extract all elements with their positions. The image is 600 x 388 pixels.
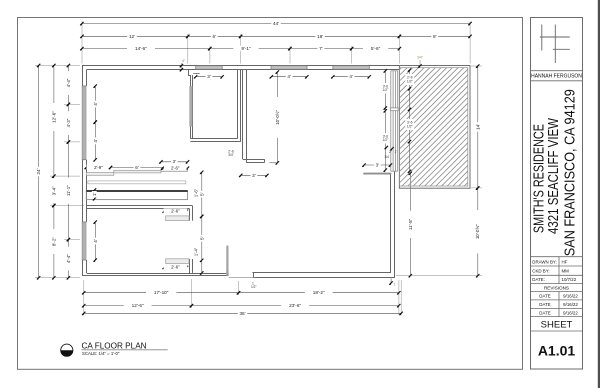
dim 4ft4 left upper	[66, 64, 71, 106]
dim 10ft right	[475, 186, 480, 277]
svg-text:10'-0⅝": 10'-0⅝"	[475, 224, 480, 239]
deck outer outline	[399, 66, 470, 189]
dim 4ft4 left lower	[66, 238, 71, 280]
dim 4ft window W4b	[92, 120, 97, 161]
svg-text:DATE:: DATE:	[532, 277, 545, 282]
svg-text:23'-6": 23'-6"	[289, 303, 301, 308]
svg-text:SAN FRANCISCO, CA 94129: SAN FRANCISCO, CA 94129	[562, 89, 579, 256]
sheet border frame	[18, 18, 523, 370]
dim 1ft island	[92, 188, 97, 200]
dim 5ft tier upper	[199, 171, 204, 219]
interior wall stub right	[364, 173, 390, 175]
svg-text:11'-8": 11'-8"	[408, 218, 413, 230]
svg-text:4'-3": 4'-3"	[66, 118, 71, 127]
lower room top wall	[87, 205, 193, 207]
door jamb step detail room1	[193, 73, 200, 75]
dim 14ft6	[80, 46, 211, 51]
title block row lines	[531, 71, 583, 331]
kitchen island thick front edge	[86, 190, 187, 192]
svg-text:SHEET: SHEET	[541, 319, 573, 330]
svg-text:HF: HF	[562, 259, 568, 264]
dim 2ft6 kitchen upper	[161, 165, 189, 170]
svg-text:3': 3'	[207, 74, 211, 79]
svg-text:5': 5'	[199, 236, 204, 240]
svg-text:1'-6": 1'-6"	[194, 188, 199, 197]
svg-text:17'-10": 17'-10"	[154, 290, 169, 295]
svg-text:4': 4'	[349, 74, 353, 79]
tier tick bottom	[200, 271, 203, 274]
svg-text:1/2": 1/2"	[383, 138, 390, 142]
svg-text:2'-6": 2'-6"	[171, 265, 180, 270]
right dimension extension lines	[396, 66, 482, 276]
deck tier small labels	[405, 74, 414, 130]
bottom wall left inner	[87, 273, 227, 275]
dim 1ft4 kitchen right	[194, 241, 199, 264]
svg-text:CKD BY:: CKD BY:	[532, 269, 549, 274]
svg-text:1/2": 1/2"	[407, 80, 414, 84]
dim 4ft window W5	[92, 220, 97, 261]
svg-text:44': 44'	[273, 21, 279, 26]
dim 3ft4 left	[51, 175, 56, 208]
lower room right wall lower	[189, 259, 191, 273]
entry door leaf	[226, 247, 228, 274]
svg-text:3': 3'	[376, 162, 380, 167]
dim 11ft8 right	[408, 172, 413, 278]
bottom wall right inner	[252, 272, 390, 274]
arrow line at wall for interior dim	[269, 162, 277, 164]
svg-text:4'-4": 4'-4"	[66, 78, 71, 87]
entry door hinge block	[226, 270, 228, 276]
dim 17ft10 bottom	[82, 290, 240, 295]
title block outline	[531, 18, 583, 370]
L-wall horizontal pair	[243, 159, 265, 161]
svg-text:14'-6": 14'-6"	[135, 46, 147, 51]
svg-text:1': 1'	[92, 192, 97, 195]
svg-text:CA FLOOR PLAN: CA FLOOR PLAN	[82, 341, 147, 350]
dim 2ft6 closet top	[163, 208, 189, 213]
tiny dim bottom right 1ft	[390, 279, 392, 284]
svg-text:4': 4'	[93, 239, 98, 243]
room1 right wall	[237, 70, 239, 139]
top wall inner line	[87, 69, 400, 71]
left wall inner lower	[86, 260, 88, 273]
svg-text:1'-4": 1'-4"	[194, 247, 199, 256]
svg-text:HANNAH FERGUSON: HANNAH FERGUSON	[531, 74, 582, 80]
svg-text:24': 24'	[36, 168, 41, 174]
revision date rows	[539, 294, 578, 316]
svg-text:10/7/22: 10/7/22	[562, 277, 577, 282]
dim 8 ft	[398, 33, 472, 38]
dim 24 ft left	[36, 64, 41, 280]
svg-text:DATE: DATE	[539, 294, 550, 299]
svg-text:11'-1": 11'-1"	[66, 185, 71, 196]
svg-text:DATE: DATE	[539, 310, 550, 315]
page right edge shadow	[598, 0, 600, 388]
kitchen island	[86, 191, 187, 200]
svg-text:18'-2": 18'-2"	[313, 290, 325, 295]
dim 3ft kitchen	[159, 159, 189, 164]
svg-text:DRAWN BY:: DRAWN BY:	[532, 259, 556, 264]
deck-side dim tier	[409, 70, 411, 171]
room1 wall stub below top wall	[188, 70, 190, 76]
svg-text:9/16/22: 9/16/22	[563, 294, 578, 299]
kitchen upper cabinets stepped bars	[86, 169, 187, 175]
dim 12ft6 bottom	[82, 303, 193, 308]
svg-text:3': 3'	[252, 173, 256, 178]
svg-text:1/2": 1/2"	[407, 125, 414, 129]
svg-text:4'-4": 4'-4"	[66, 254, 71, 263]
deck inner outline	[399, 68, 467, 186]
bottom wall left outer	[82, 275, 229, 277]
svg-text:1/2": 1/2"	[383, 88, 390, 92]
svg-text:SCALE: 1/4" = 1'-0": SCALE: 1/4" = 1'-0"	[82, 351, 120, 356]
dim 4ft window W3	[331, 74, 371, 79]
svg-text:4321 SEACLIFF VIEW: 4321 SEACLIFF VIEW	[545, 117, 562, 234]
entry threshold line	[229, 277, 255, 279]
title block column dividers	[558, 257, 560, 317]
logo HF monogram	[540, 25, 570, 64]
window W4 left wall	[82, 86, 86, 160]
dim 11ft1 left	[66, 140, 71, 241]
room1 left wall	[190, 75, 192, 139]
svg-text:3/4": 3/4"	[228, 153, 234, 157]
dim 44 ft overall	[80, 21, 472, 26]
dim 12ft6 left	[51, 64, 56, 178]
svg-text:10'-0½": 10'-0½"	[275, 110, 280, 125]
svg-text:12'-6": 12'-6"	[51, 111, 56, 123]
svg-text:4': 4'	[287, 74, 291, 79]
dim 2ft9 kitchen	[85, 165, 113, 170]
dim 1ft6 kitchen right	[194, 182, 199, 205]
svg-text:14': 14'	[475, 124, 480, 130]
svg-text:2'-9": 2'-9"	[94, 165, 103, 170]
bottom wall right outer	[254, 277, 394, 279]
lower room right wall upper	[189, 208, 191, 220]
dim 36 ft bottom	[82, 310, 403, 315]
L-wall vertical pair	[242, 70, 244, 160]
left wall inner upper	[86, 70, 88, 87]
left dimension extension lines	[35, 65, 84, 277]
svg-text:1': 1'	[395, 150, 398, 154]
dim 3ft window W1	[194, 74, 224, 79]
svg-text:A1.01: A1.01	[538, 343, 576, 359]
dim 6ft kitchen	[109, 165, 165, 170]
room1 bottom wall	[190, 138, 237, 140]
svg-text:REVISIONS: REVISIONS	[544, 285, 569, 290]
dim 18ft2 bottom	[237, 290, 401, 295]
dim 3ft L-wall	[239, 172, 269, 177]
svg-text:DATE: DATE	[539, 302, 550, 307]
svg-text:8': 8'	[433, 34, 437, 39]
svg-text:MM: MM	[562, 269, 570, 274]
window W2 top wall	[271, 66, 307, 70]
window W3 top wall	[333, 66, 369, 70]
glass panel tier small labels	[381, 83, 390, 144]
svg-text:7': 7'	[319, 46, 323, 51]
lower room closet shelf bottom	[166, 259, 189, 264]
dim 7 ft	[288, 46, 353, 51]
right wall inner	[390, 174, 392, 273]
svg-text:12'-6": 12'-6"	[132, 303, 144, 308]
view title circle symbol	[61, 344, 73, 356]
glass wall band right side	[391, 71, 398, 171]
svg-text:8'-2": 8'-2"	[51, 237, 56, 247]
svg-text:6': 6'	[212, 34, 216, 39]
bottom dimension extension lines	[84, 279, 401, 315]
dim 4ft3 left	[66, 103, 71, 144]
kitchen counter thin rect	[88, 181, 186, 184]
bottom wall jog	[253, 273, 255, 278]
dim 5ft tier lower	[199, 215, 204, 262]
svg-text:12': 12'	[129, 34, 135, 39]
svg-text:3/4: 3/4	[385, 155, 390, 159]
svg-text:9'-1": 9'-1"	[241, 46, 251, 51]
dim 18 ft	[239, 33, 401, 38]
left wall outer	[82, 66, 84, 276]
dim 9ft1	[208, 46, 292, 51]
room1 pocket door leaf	[189, 86, 192, 127]
dim 8ft2 left	[51, 204, 56, 280]
svg-text:36': 36'	[239, 311, 245, 316]
svg-text:1/2": 1/2"	[251, 285, 257, 289]
svg-text:18': 18'	[317, 34, 323, 39]
dim 23ft6 bottom	[190, 303, 401, 308]
top dimension extension lines	[82, 21, 470, 63]
right wall outer	[394, 171, 396, 278]
lower room closet shelf top	[166, 216, 189, 221]
svg-text:2': 2'	[389, 150, 392, 154]
project title rotated	[531, 89, 579, 256]
svg-text:5'-6": 5'-6"	[371, 46, 381, 51]
dim 4ft window W2	[270, 74, 309, 79]
svg-text:3'-4": 3'-4"	[51, 186, 56, 196]
top wall outer line	[82, 65, 470, 67]
dim 10ft interior height	[275, 70, 280, 164]
svg-text:9/16/22: 9/16/22	[563, 310, 578, 315]
view title underline	[82, 349, 168, 351]
svg-text:4': 4'	[93, 139, 98, 143]
dim 12 ft	[80, 33, 189, 38]
svg-text:2'-6": 2'-6"	[171, 209, 180, 214]
window W1 top wall	[196, 66, 223, 70]
svg-text:6': 6'	[135, 165, 139, 170]
svg-text:1': 1'	[394, 283, 397, 287]
dim 5ft6	[350, 46, 401, 51]
svg-text:9/16/22: 9/16/22	[563, 302, 578, 307]
dim 4ft window W4a	[92, 84, 97, 123]
svg-text:2'-6": 2'-6"	[171, 165, 180, 170]
dim 3ft stub	[362, 162, 392, 167]
left wall inner middle	[86, 160, 88, 222]
svg-text:4': 4'	[93, 102, 98, 106]
dim 2ft6 closet bottom	[163, 265, 189, 270]
glass panel dim tier left of glass wall	[384, 71, 386, 170]
svg-text:5': 5'	[199, 192, 204, 196]
dim 14 ft right	[475, 64, 480, 189]
window W5 left wall	[82, 222, 86, 260]
svg-text:3': 3'	[173, 159, 176, 164]
glass wall mid divider	[390, 108, 398, 111]
tiny dims glass wall top cluster	[385, 150, 398, 159]
dim 6 ft	[186, 33, 242, 38]
svg-text:3/4": 3/4"	[417, 56, 424, 60]
